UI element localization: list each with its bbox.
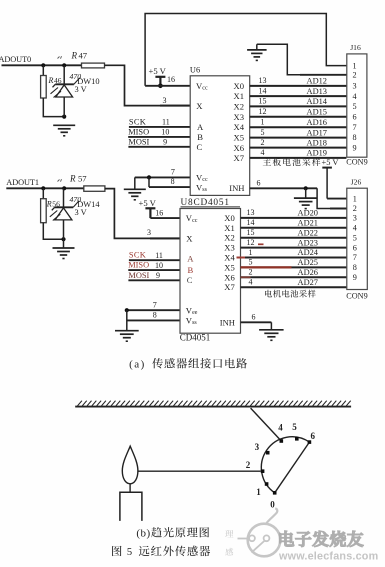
svg-text:5: 5 <box>292 422 297 432</box>
svg-text:(b): (b) <box>136 527 150 539</box>
svg-text:www.elecfans.com: www.elecfans.com <box>278 551 378 563</box>
svg-text:AD18: AD18 <box>307 138 327 147</box>
svg-text:X6: X6 <box>224 272 235 282</box>
svg-text:X2: X2 <box>233 102 244 112</box>
svg-text:AD19: AD19 <box>307 149 327 158</box>
svg-text:B: B <box>197 132 203 142</box>
svg-text:8: 8 <box>153 311 157 320</box>
svg-text:X0: X0 <box>233 81 244 91</box>
svg-text:47: 47 <box>79 51 88 61</box>
svg-text:AD14: AD14 <box>307 97 328 106</box>
svg-text:57: 57 <box>78 174 87 184</box>
svg-text:ADOUT0: ADOUT0 <box>0 55 31 64</box>
svg-text:4: 4 <box>249 278 253 287</box>
svg-text:4: 4 <box>261 148 265 157</box>
svg-text:X4: X4 <box>233 122 244 132</box>
svg-text:5: 5 <box>353 233 357 242</box>
svg-text:2: 2 <box>353 204 357 213</box>
svg-text:C: C <box>187 275 193 285</box>
svg-text:7: 7 <box>353 253 357 262</box>
svg-text:2: 2 <box>261 138 265 147</box>
svg-text:X1: X1 <box>224 223 235 233</box>
svg-text:X6: X6 <box>233 143 244 153</box>
svg-text:6: 6 <box>353 243 357 252</box>
svg-text:X7: X7 <box>233 153 244 163</box>
svg-text:A: A <box>197 122 204 132</box>
svg-text:8: 8 <box>353 133 357 142</box>
svg-text:12: 12 <box>259 107 267 116</box>
svg-text:AD17: AD17 <box>307 128 327 137</box>
svg-text:2: 2 <box>249 268 253 277</box>
svg-text:X: X <box>186 233 193 243</box>
svg-text:5: 5 <box>353 102 357 111</box>
svg-text:C: C <box>197 142 203 152</box>
svg-text:6: 6 <box>252 313 256 322</box>
svg-text:AD27: AD27 <box>298 278 318 287</box>
svg-text:6: 6 <box>311 431 316 441</box>
svg-text:AD25: AD25 <box>298 258 318 267</box>
svg-text:X5: X5 <box>224 262 235 272</box>
svg-text:CON9: CON9 <box>346 292 367 301</box>
svg-text:9: 9 <box>156 271 160 280</box>
svg-text:11: 11 <box>155 251 163 260</box>
svg-text:X3: X3 <box>224 243 235 253</box>
svg-text:J16: J16 <box>350 43 361 52</box>
svg-text:5: 5 <box>261 128 265 137</box>
svg-text:13: 13 <box>259 76 267 85</box>
svg-text:ADOUT1: ADOUT1 <box>6 178 39 187</box>
svg-text:cc: cc <box>202 177 208 183</box>
svg-text:X4: X4 <box>224 253 235 263</box>
svg-text:J26: J26 <box>351 177 362 186</box>
svg-text:7: 7 <box>153 301 157 310</box>
svg-text:AD13: AD13 <box>307 87 327 96</box>
svg-text:CON9: CON9 <box>346 158 367 167</box>
svg-text:15: 15 <box>247 228 255 237</box>
svg-text:1: 1 <box>261 118 265 127</box>
svg-text:6: 6 <box>353 112 357 121</box>
svg-text:3 V: 3 V <box>75 85 87 94</box>
svg-text:ss: ss <box>202 187 207 193</box>
svg-text:SCK: SCK <box>129 251 146 260</box>
svg-text:INH: INH <box>220 317 235 327</box>
svg-text:X1: X1 <box>233 91 244 101</box>
svg-text:ee: ee <box>192 310 198 316</box>
svg-text:AD16: AD16 <box>307 118 327 127</box>
svg-text:10: 10 <box>155 261 163 270</box>
svg-text:B: B <box>188 265 194 275</box>
svg-text:R: R <box>69 174 76 184</box>
svg-text:X0: X0 <box>224 213 235 223</box>
svg-text:5: 5 <box>127 547 132 558</box>
svg-text:MISO: MISO <box>128 261 149 270</box>
svg-text:3: 3 <box>255 442 260 452</box>
svg-text:4: 4 <box>353 224 357 233</box>
svg-text:5: 5 <box>249 258 253 267</box>
svg-text:9: 9 <box>353 143 357 152</box>
svg-text:MISO: MISO <box>128 127 149 136</box>
svg-text:AD12: AD12 <box>307 77 327 86</box>
svg-text:AD15: AD15 <box>307 107 327 116</box>
svg-text:7: 7 <box>171 168 175 177</box>
svg-text:1: 1 <box>353 194 357 203</box>
svg-text:MOSI: MOSI <box>128 271 149 280</box>
svg-text:1: 1 <box>256 487 261 497</box>
svg-text:X5: X5 <box>233 133 244 143</box>
svg-text:14: 14 <box>259 86 267 95</box>
svg-text:1: 1 <box>249 248 253 257</box>
svg-text:16: 16 <box>167 75 175 84</box>
svg-text:AD23: AD23 <box>298 238 318 247</box>
svg-text:3: 3 <box>353 214 357 223</box>
svg-text:3: 3 <box>147 228 151 237</box>
svg-text:R: R <box>71 51 78 61</box>
svg-text:8: 8 <box>171 177 175 186</box>
svg-text:ss: ss <box>192 320 197 326</box>
svg-text:6: 6 <box>257 179 261 188</box>
svg-text:MOSI: MOSI <box>128 137 149 146</box>
svg-text:9: 9 <box>163 138 167 147</box>
svg-text:AD24: AD24 <box>298 248 319 257</box>
svg-text:11: 11 <box>162 118 170 127</box>
svg-text:R: R <box>46 199 52 208</box>
svg-text:4: 4 <box>353 92 357 101</box>
svg-text:1: 1 <box>353 61 357 70</box>
svg-text:16: 16 <box>155 208 163 217</box>
svg-text:2: 2 <box>353 71 357 80</box>
svg-text:cc: cc <box>192 218 198 224</box>
svg-text:AD20: AD20 <box>298 209 318 218</box>
svg-text:INH: INH <box>229 183 244 193</box>
svg-text:AD26: AD26 <box>298 268 318 277</box>
svg-text:AD22: AD22 <box>298 228 318 237</box>
svg-text:CD4051: CD4051 <box>180 333 211 343</box>
svg-text:8: 8 <box>353 263 357 272</box>
svg-text:X: X <box>196 101 203 111</box>
svg-text:+5 V: +5 V <box>149 66 167 76</box>
svg-text:A: A <box>187 254 194 264</box>
svg-text:4: 4 <box>278 423 283 433</box>
svg-text:X2: X2 <box>224 233 235 243</box>
svg-text:9: 9 <box>353 273 357 282</box>
svg-text:0: 0 <box>270 499 275 509</box>
svg-text:AD21: AD21 <box>298 219 318 228</box>
svg-text:12: 12 <box>247 238 255 247</box>
svg-text:R: R <box>48 76 54 85</box>
svg-text:(a): (a) <box>129 358 146 370</box>
svg-text:3: 3 <box>163 96 167 105</box>
svg-text:7: 7 <box>353 123 357 132</box>
svg-text:10: 10 <box>161 128 169 137</box>
svg-text:14: 14 <box>247 218 255 227</box>
svg-text:15: 15 <box>259 97 267 106</box>
svg-text:13: 13 <box>247 208 255 217</box>
svg-text:3 V: 3 V <box>75 208 87 217</box>
svg-text:+5 V: +5 V <box>139 198 157 208</box>
svg-text:cc: cc <box>202 86 208 92</box>
svg-text:2: 2 <box>246 460 251 470</box>
svg-text:3: 3 <box>353 82 357 91</box>
svg-text:X7: X7 <box>224 282 235 292</box>
svg-text:U6: U6 <box>190 66 200 75</box>
svg-text:X3: X3 <box>233 112 244 122</box>
svg-text:+5 V: +5 V <box>322 158 339 167</box>
svg-text:SCK: SCK <box>129 117 146 126</box>
